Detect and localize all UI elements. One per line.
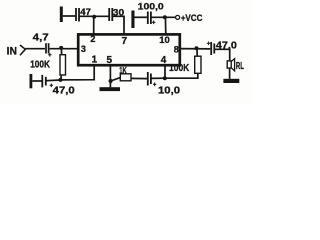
capacitor C4 value 100,0 [147, 12, 149, 25]
svg-text:1: 1 [92, 55, 98, 66]
ground bar under speaker [223, 79, 239, 83]
pin 2 [90, 34, 95, 44]
wire pin4 node to R2 bottom [165, 73, 198, 78]
wire pin 8 to C7 [180, 48, 211, 50]
wire R1 bottom stub [60, 75, 63, 80]
node junction pin2 [92, 15, 96, 19]
svg-text:2: 2 [90, 34, 95, 44]
svg-text:+: + [153, 81, 157, 88]
svg-text:3: 3 [81, 44, 86, 54]
resistor R2 100K [195, 56, 201, 73]
pin 7 [122, 36, 128, 47]
capacitor C3 value 30 [108, 8, 110, 21]
input jack arrow [20, 45, 25, 55]
pin 1 [92, 55, 98, 66]
svg-text:IN: IN [7, 45, 18, 57]
capacitor C1 value 4,7 [45, 43, 47, 53]
wire ground to C6 [32, 80, 42, 82]
svg-text:5: 5 [107, 55, 113, 66]
top-left ground bar [60, 7, 63, 23]
svg-text:47,0: 47,0 [53, 86, 75, 97]
op-amp U1 IC body [78, 34, 180, 65]
terminal +VCC [176, 15, 180, 19]
pin 10 [159, 35, 170, 46]
svg-text:+: + [48, 52, 52, 59]
svg-text:4: 4 [161, 55, 167, 66]
node junction R1/C6 [59, 78, 63, 82]
wire input to pin 3 [25, 48, 78, 50]
svg-text:4,7: 4,7 [33, 31, 49, 43]
speaker RL [227, 61, 231, 68]
pin 5 [107, 55, 113, 66]
wire pin 5 to ground [109, 66, 111, 88]
capacitor C7 value 47,0 [210, 42, 212, 55]
wire C7 to speaker [215, 49, 230, 61]
svg-text:1K: 1K [119, 65, 127, 75]
wire C6 to pin1 node [46, 79, 60, 82]
wire R2 top stub [196, 48, 198, 56]
wire pin 10 stub [164, 17, 166, 34]
ground bar left of C6 [30, 74, 33, 88]
wire ground to C2 [63, 15, 75, 17]
wire pin 2 stub [93, 17, 95, 35]
ground bar left of C4 [131, 11, 134, 29]
resistor 1K [120, 74, 131, 81]
capacitor C2 value 47 [75, 8, 77, 21]
capacitor C5 value 10,0 [147, 72, 149, 86]
svg-text:100K: 100K [169, 63, 190, 74]
wire C3 to pin 7 [113, 16, 124, 34]
svg-text:100,0: 100,0 [138, 1, 164, 11]
wire speaker to ground [229, 68, 231, 79]
node junction pin4 [163, 76, 167, 80]
wire ground to C4 [135, 16, 148, 18]
pin 3 [81, 44, 86, 54]
capacitor C6 value 47,0 [41, 75, 43, 88]
svg-text:10: 10 [159, 35, 170, 46]
node junction input/R1 [59, 46, 63, 50]
pin 4 [161, 55, 167, 66]
ground bar under pin 5 [100, 87, 121, 91]
resistor R1 100K [60, 55, 66, 75]
svg-text:8: 8 [174, 44, 179, 54]
svg-text:+VCC: +VCC [181, 13, 203, 23]
wire 1K to C5 [131, 77, 147, 79]
wire C2 to junction [79, 15, 108, 17]
wire pin 1 stub to C6 node [61, 66, 95, 80]
svg-text:7: 7 [122, 36, 128, 47]
wire C5 to pin4 node [151, 77, 165, 79]
pin 8 [174, 44, 179, 54]
node junction pin5/1K [109, 79, 113, 83]
wire R1 top stub [60, 48, 62, 55]
wire pin 4 stub [164, 66, 166, 79]
svg-text:100K: 100K [30, 60, 50, 71]
node junction pin8/R2 [195, 46, 199, 50]
node junction pin10 [163, 15, 167, 19]
svg-text:+: + [152, 20, 156, 27]
svg-text:+: + [207, 41, 211, 48]
svg-text:RL: RL [236, 61, 244, 72]
wire pin5 node to 1K [111, 78, 121, 81]
wire C4 to VCC terminal [151, 16, 175, 18]
svg-text:10,0: 10,0 [158, 86, 181, 97]
node IN label [7, 45, 18, 57]
